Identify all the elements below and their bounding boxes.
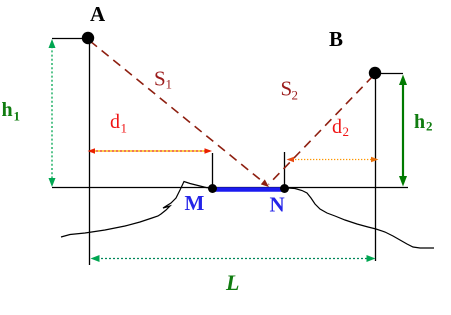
- svg-text:1: 1: [166, 77, 173, 92]
- svg-text:d: d: [110, 111, 120, 133]
- h2 dimension arrow (green solid, double headed): [402, 78, 404, 183]
- h1 dimension arrow (green dotted, double headed): [51, 42, 53, 184]
- svg-text:d: d: [332, 116, 342, 138]
- svg-text:h: h: [2, 99, 13, 121]
- vertical line below A: [89, 38, 91, 265]
- point N dot: [280, 184, 289, 193]
- svg-text:N: N: [270, 193, 285, 217]
- vertical line below B: [375, 73, 377, 261]
- svg-text:A: A: [90, 2, 106, 26]
- svg-text:h: h: [414, 111, 425, 133]
- tick above N: [284, 152, 286, 188]
- svg-text:2: 2: [343, 124, 350, 139]
- tick above M: [212, 153, 214, 188]
- terrain curve: [61, 182, 434, 249]
- d2 dimension arrow (orange dotted, double headed): [289, 159, 376, 161]
- d1 dimension arrow (red/yellow dashed, double headed): [90, 150, 210, 152]
- svg-text:2: 2: [426, 119, 433, 134]
- svg-text:2: 2: [292, 88, 299, 103]
- svg-text:M: M: [185, 191, 205, 215]
- point M dot: [208, 184, 217, 193]
- arrowhead of S1: [261, 179, 269, 187]
- connector line at B top: [377, 73, 403, 75]
- ground line: [52, 187, 408, 189]
- connector line at A top: [52, 38, 86, 40]
- point B dot: [369, 67, 381, 79]
- dashed sight line S1 from A: [90, 41, 263, 182]
- svg-text:1: 1: [14, 109, 21, 124]
- dashed sight line S2 from B: [269, 76, 374, 185]
- svg-text:L: L: [225, 270, 239, 295]
- blue segment MN: [213, 187, 287, 192]
- svg-text:S: S: [154, 67, 166, 91]
- point A dot: [82, 32, 94, 44]
- svg-text:1: 1: [121, 121, 128, 136]
- svg-text:S: S: [281, 77, 293, 101]
- L dimension arrow (green dotted, double headed): [93, 258, 373, 260]
- svg-text:B: B: [329, 27, 343, 51]
